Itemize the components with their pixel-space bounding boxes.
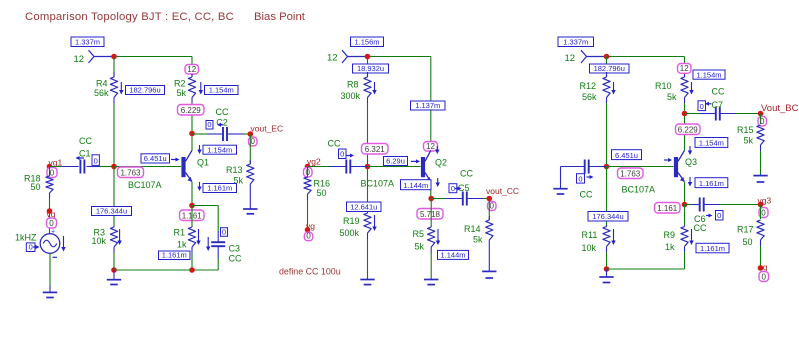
- wire Q2 emitter to node: [430, 182, 432, 199]
- wire VCC horizontal left: [114, 56, 192, 58]
- transistor Q1: [181, 150, 209, 181]
- svg-text:1.161: 1.161: [657, 204, 678, 213]
- wire emitter node to C3 branch: [192, 205, 218, 207]
- current arrow R3: [119, 229, 121, 241]
- node vg2: [304, 156, 321, 177]
- svg-text:1.144m: 1.144m: [403, 181, 428, 190]
- wire C5 to vout_CC: [483, 198, 489, 200]
- current arrow R1: [198, 229, 200, 241]
- svg-text:12: 12: [426, 142, 435, 151]
- current label 6.451u right: [612, 150, 642, 160]
- svg-text:CC: CC: [580, 190, 593, 200]
- svg-text:5k: 5k: [415, 242, 425, 252]
- svg-text:CC: CC: [216, 107, 229, 117]
- svg-text:182.796u: 182.796u: [129, 86, 160, 95]
- svg-text:vg2: vg2: [307, 156, 321, 166]
- svg-text:1.337m: 1.337m: [563, 38, 588, 47]
- capacitor C3: [211, 231, 242, 264]
- resistor R8: [341, 72, 372, 103]
- node R1 bottom: [189, 267, 195, 273]
- svg-text:Comparison Topology BJT : EC,: Comparison Topology BJT : EC, CC, BC: [25, 11, 234, 23]
- node vout_CC: [486, 186, 519, 211]
- svg-text:0: 0: [717, 211, 721, 220]
- wire base node to C1 junction: [100, 166, 114, 168]
- voltage label 1.161 right: [655, 203, 681, 214]
- current arrow R12: [613, 82, 615, 90]
- svg-text:1.763: 1.763: [120, 168, 141, 177]
- voltage label 1.763 right: [618, 168, 644, 179]
- svg-text:1.161m: 1.161m: [162, 251, 187, 260]
- svg-text:0: 0: [761, 208, 766, 217]
- wire base junction down to R19: [367, 167, 369, 213]
- wire VCC to R12: [606, 57, 608, 78]
- svg-text:R17: R17: [737, 225, 754, 235]
- wire emitter node down to R9: [684, 205, 686, 226]
- resistor R13: [226, 160, 254, 190]
- svg-text:0: 0: [251, 137, 256, 146]
- wire emitter node to C5: [431, 198, 446, 200]
- current label 0 C1: [76, 155, 100, 166]
- wire VCC down to R10: [684, 57, 686, 78]
- current label 0 C3: [206, 228, 228, 252]
- current arrow R9: [691, 229, 693, 241]
- current label 1.137m: [411, 101, 446, 110]
- resistor R4: [94, 72, 118, 103]
- current label 0 source: [26, 243, 39, 252]
- current arrow R8: [374, 82, 376, 90]
- svg-text:1.154m: 1.154m: [207, 145, 232, 154]
- svg-text:5k: 5k: [667, 92, 677, 102]
- node VCC junction right: [604, 54, 610, 60]
- wire R10 to C7 node: [684, 103, 686, 151]
- svg-text:5k: 5k: [177, 88, 187, 98]
- svg-text:1.144m: 1.144m: [440, 251, 465, 260]
- svg-text:R15: R15: [737, 125, 754, 135]
- svg-text:define CC 100u: define CC 100u: [279, 267, 341, 277]
- ground bypass cap: [560, 167, 562, 189]
- svg-text:BC107A: BC107A: [361, 179, 395, 189]
- current label 1.144m R5: [438, 250, 469, 259]
- wire C2 to vout_EC: [243, 133, 250, 135]
- svg-text:182.796u: 182.796u: [594, 64, 625, 73]
- current arrow R5: [437, 229, 439, 241]
- current label 0 C5: [449, 184, 462, 193]
- wire C7 to Vout_BC: [736, 113, 761, 115]
- svg-text:CC: CC: [694, 223, 707, 233]
- voltage label 12 Q2 collector: [424, 142, 438, 152]
- svg-text:CC: CC: [712, 87, 725, 97]
- wire top to R2: [191, 57, 193, 78]
- resistor R18: [24, 171, 53, 198]
- wire R18 to vg node: [49, 198, 51, 234]
- current arrow R4: [120, 82, 122, 90]
- current label 1.154m R2: [205, 86, 239, 95]
- svg-text:CC: CC: [328, 139, 341, 149]
- capacitor C5: [446, 169, 483, 206]
- svg-text:6.229: 6.229: [181, 106, 202, 115]
- current label 176.344u right: [588, 212, 628, 222]
- current label 1.156m: [351, 37, 384, 47]
- ground R14: [488, 246, 490, 271]
- svg-text:R8: R8: [347, 79, 359, 89]
- wire base junction to Q3 base: [607, 166, 674, 168]
- wire vg1 to C1: [50, 166, 63, 168]
- current label 1.161m R1: [159, 251, 191, 260]
- svg-text:1k: 1k: [665, 242, 675, 252]
- svg-text:R14: R14: [464, 224, 481, 234]
- current label 0 input cap middle: [339, 149, 355, 159]
- svg-text:Bias Point: Bias Point: [254, 11, 306, 23]
- svg-text:1.137m: 1.137m: [415, 101, 440, 110]
- voltage label 6.229 right: [676, 124, 701, 135]
- current arrow and label 1.161m emitter Q3: [688, 177, 728, 188]
- wire C6 to vg3: [720, 204, 761, 206]
- svg-text:C1: C1: [79, 149, 91, 159]
- svg-text:12: 12: [74, 54, 85, 65]
- resistor R2: [174, 74, 196, 103]
- node R3 bottom: [111, 267, 117, 273]
- svg-text:0: 0: [700, 102, 704, 111]
- node base junction Q2: [365, 164, 371, 170]
- svg-text:1k: 1k: [177, 240, 187, 250]
- svg-text:12: 12: [680, 64, 689, 73]
- svg-text:1.156m: 1.156m: [354, 38, 379, 47]
- svg-text:vg: vg: [306, 221, 315, 231]
- svg-text:+: +: [51, 228, 55, 235]
- node C7 tap: [682, 111, 688, 117]
- svg-text:0: 0: [207, 120, 211, 129]
- node emitter Q1: [189, 203, 195, 209]
- svg-text:C7: C7: [712, 100, 724, 110]
- svg-text:0: 0: [490, 201, 495, 210]
- ground source: [49, 286, 51, 292]
- node vg right: [758, 262, 769, 282]
- svg-text:18.932u: 18.932u: [357, 64, 384, 73]
- current arrow base Q3: [664, 159, 668, 161]
- svg-text:5k: 5k: [473, 235, 483, 245]
- current label 182.796u left: [126, 86, 165, 95]
- svg-text:Q1: Q1: [197, 158, 209, 168]
- node vout_EC: [248, 124, 284, 147]
- voltage label 1.161 left: [180, 210, 205, 221]
- resistor R5: [413, 226, 435, 253]
- current arrow R19: [374, 215, 376, 227]
- svg-text:Q2: Q2: [435, 158, 447, 168]
- svg-text:6.451u: 6.451u: [615, 151, 638, 160]
- wire VCC down to Q2 collector: [430, 57, 432, 151]
- node vg1: [47, 158, 63, 178]
- capacitor C1: [62, 136, 100, 174]
- ground R13: [249, 190, 251, 209]
- current arrow R11: [613, 229, 615, 241]
- transistor Q2: [421, 150, 447, 181]
- svg-text:1.154m: 1.154m: [699, 139, 724, 148]
- wire vout_EC to R13: [249, 134, 251, 164]
- svg-text:50: 50: [317, 188, 327, 198]
- resistor R11: [582, 225, 611, 253]
- svg-text:CC: CC: [229, 254, 242, 264]
- svg-text:0: 0: [762, 272, 767, 281]
- wire Vout_BC to R15: [760, 114, 762, 125]
- wire vout_CC to R14: [488, 199, 490, 221]
- wire base junction left to bypass cap: [595, 166, 607, 168]
- resistor R1: [174, 226, 196, 253]
- current label 6.451u base Q1: [141, 154, 180, 163]
- svg-text:BC107A: BC107A: [622, 185, 656, 195]
- wire R15 to ground: [760, 151, 762, 174]
- svg-text:6.451u: 6.451u: [144, 154, 167, 163]
- current label 0 C7: [698, 101, 712, 111]
- svg-text:5.718: 5.718: [420, 210, 441, 219]
- svg-text:vg: vg: [759, 262, 768, 272]
- svg-text:vg3: vg3: [758, 196, 772, 206]
- wire R17 to vg node: [760, 246, 762, 268]
- svg-text:0: 0: [29, 243, 33, 252]
- svg-text:R12: R12: [580, 81, 597, 91]
- svg-text:Vout_BC: Vout_BC: [761, 103, 799, 114]
- svg-text:C3: C3: [229, 244, 241, 254]
- current label 0 C2: [206, 120, 223, 129]
- svg-text:1.161m: 1.161m: [700, 244, 725, 253]
- wire R9 to bottom rail: [684, 252, 686, 269]
- wire VCC horizontal right: [607, 56, 685, 58]
- current arrow and label 1.154m collector Q3: [688, 138, 728, 156]
- ground bottom rail left: [113, 270, 115, 280]
- ground R11: [606, 269, 608, 277]
- current label 182.796u right: [590, 64, 630, 73]
- capacitor C2: [207, 107, 243, 141]
- wire C7 node to C7: [685, 113, 701, 115]
- node Vout_BC: [758, 103, 799, 126]
- svg-text:1.337m: 1.337m: [75, 38, 100, 47]
- current label 12.641u: [347, 202, 382, 212]
- svg-text:R11: R11: [582, 230, 598, 240]
- svg-text:1.161m: 1.161m: [207, 184, 232, 193]
- voltage label 5.718: [417, 209, 443, 220]
- wire R19 to ground: [367, 239, 369, 278]
- node emitter Q3: [682, 202, 688, 208]
- current arrow and label 1.154m collector Q1: [197, 145, 236, 154]
- node base divider junction: [111, 164, 117, 170]
- current label 176.344u R3: [92, 207, 132, 216]
- svg-text:10k: 10k: [582, 243, 597, 253]
- resistor R3: [92, 226, 118, 253]
- voltage label 1.763 left: [118, 167, 144, 178]
- current arrow and label 1.144m emitter Q2: [401, 178, 440, 190]
- wire bottom rail right: [607, 268, 685, 270]
- wire R2 to collector node: [191, 103, 193, 151]
- wire VCC horizontal middle: [368, 56, 431, 58]
- wire source to ground: [49, 253, 51, 286]
- svg-text:C2: C2: [216, 118, 228, 128]
- svg-text:56k: 56k: [94, 88, 109, 98]
- svg-text:Q3: Q3: [685, 157, 697, 167]
- wire R1 to bottom rail: [191, 253, 193, 270]
- wire emitter to emitter node: [191, 182, 193, 206]
- svg-text:1.763: 1.763: [620, 169, 641, 178]
- svg-text:50: 50: [743, 237, 753, 247]
- node emitter Q2: [428, 196, 434, 202]
- svg-text:12: 12: [187, 65, 196, 74]
- ground R5: [430, 278, 432, 280]
- svg-text:vout_CC: vout_CC: [486, 186, 519, 196]
- svg-text:176.344u: 176.344u: [592, 212, 623, 221]
- resistor R17: [737, 220, 764, 247]
- svg-text:0: 0: [94, 157, 98, 166]
- current label 0 bypass cap: [577, 174, 594, 184]
- current arrow R2: [200, 82, 202, 90]
- wire base junction down to R11: [606, 167, 608, 227]
- node vg3: [758, 196, 772, 218]
- wire R8 to base node: [367, 103, 369, 167]
- svg-text:R5: R5: [413, 229, 425, 239]
- capacitor C6: [692, 198, 720, 234]
- off-page connector 12V left: [74, 50, 115, 65]
- svg-text:0: 0: [340, 150, 344, 159]
- svg-text:CC: CC: [79, 136, 92, 146]
- svg-text:R9: R9: [664, 230, 676, 240]
- node ground junction right: [604, 266, 610, 272]
- wire C3 to bottom rail: [217, 258, 219, 270]
- wire emitter node to C6: [685, 204, 693, 206]
- off-page connector 12V middle: [327, 50, 368, 63]
- svg-text:R4: R4: [96, 79, 108, 89]
- node VCC junction left: [111, 54, 117, 60]
- svg-text:vout_EC: vout_EC: [251, 124, 284, 134]
- wire vg1 down to R18: [49, 167, 51, 177]
- svg-text:0: 0: [451, 184, 455, 193]
- transistor Q3: [674, 150, 697, 181]
- wire R11 to ground node: [606, 252, 608, 269]
- capacitor CC input middle: [328, 139, 368, 174]
- current arrow 1.137m collector Q2: [436, 146, 438, 150]
- capacitor C7: [700, 87, 736, 121]
- svg-text:1kHZ: 1kHZ: [15, 233, 37, 243]
- current label 1.154m R10: [693, 70, 725, 79]
- svg-text:12: 12: [565, 53, 576, 64]
- current label 1.337m right: [558, 37, 594, 47]
- wire base junction down to R3: [113, 167, 115, 227]
- svg-text:1.161m: 1.161m: [699, 179, 724, 188]
- wire C3 branch down: [217, 206, 219, 232]
- voltage label 12 R10 top: [678, 64, 692, 74]
- wire R5 to ground: [430, 253, 432, 278]
- svg-text:10k: 10k: [92, 236, 107, 246]
- svg-text:5k: 5k: [744, 136, 754, 146]
- resistor R10: [655, 74, 688, 103]
- wire base junction to Q1 base: [114, 166, 181, 168]
- svg-text:R2: R2: [174, 79, 186, 89]
- node VCC junction middle: [365, 54, 371, 60]
- svg-text:1.154m: 1.154m: [696, 70, 721, 79]
- node vg left: [47, 208, 57, 228]
- wire R12 to base node: [606, 103, 608, 167]
- current arrow R10: [691, 82, 693, 90]
- svg-text:0: 0: [578, 174, 582, 183]
- wire R16 to vg node: [307, 200, 309, 230]
- svg-text:BC107A: BC107A: [128, 180, 162, 190]
- current arrow source: [63, 236, 65, 247]
- wire collector node to C2: [192, 133, 207, 135]
- svg-text:12: 12: [327, 53, 338, 64]
- svg-text:6.321: 6.321: [365, 145, 386, 154]
- svg-text:R13: R13: [226, 165, 243, 175]
- svg-text:R10: R10: [655, 81, 672, 91]
- svg-text:R16: R16: [314, 179, 331, 189]
- node collector junction C2 tap: [189, 131, 195, 137]
- resistor R16: [304, 177, 330, 200]
- svg-text:6.29u: 6.29u: [386, 157, 405, 166]
- svg-text:0: 0: [222, 228, 226, 237]
- svg-text:56k: 56k: [582, 92, 597, 102]
- resistor R19: [340, 212, 372, 239]
- wire bottom rail left: [114, 269, 192, 271]
- wire vg3 to R17: [760, 205, 762, 220]
- svg-text:176.344u: 176.344u: [96, 207, 127, 216]
- voltage label 6.229 left: [178, 105, 205, 116]
- current arrow and label 1.161m emitter Q1: [197, 182, 236, 193]
- wire R3 to ground node: [113, 253, 115, 270]
- svg-text:6.229: 6.229: [678, 125, 699, 134]
- svg-text:CC: CC: [460, 169, 473, 179]
- current label 1.337m left: [71, 37, 104, 47]
- resistor R12: [580, 72, 611, 103]
- svg-text:0: 0: [306, 232, 311, 241]
- resistor R9: [664, 225, 689, 252]
- ground R15: [760, 174, 762, 176]
- svg-text:0: 0: [50, 168, 55, 177]
- node base junction Q3: [604, 164, 610, 170]
- voltage label 12 at R2 top: [185, 65, 199, 75]
- wire vg2 to input cap: [308, 166, 330, 168]
- off-page connector 12V right: [565, 50, 607, 64]
- ground R19: [367, 278, 369, 280]
- wire emitter node down to R5: [430, 199, 432, 227]
- svg-text:500k: 500k: [340, 228, 360, 238]
- svg-text:50: 50: [31, 182, 41, 192]
- wire R4 to base node: [113, 103, 115, 167]
- svg-text:0: 0: [49, 219, 54, 228]
- svg-text:12.641u: 12.641u: [350, 203, 377, 212]
- resistor R14: [464, 216, 493, 246]
- voltage label 6.321: [362, 144, 389, 155]
- wire vg2 down to R16: [307, 167, 309, 178]
- wire Q3 emitter to node: [684, 182, 686, 205]
- svg-text:300k: 300k: [341, 91, 361, 101]
- current label 18.932u: [353, 64, 389, 73]
- wire VCC to R8: [367, 57, 369, 78]
- resistor R15: [737, 125, 764, 151]
- wire emitter node to R1: [191, 206, 193, 227]
- current label 6.29u base Q2: [384, 157, 421, 166]
- svg-text:R1: R1: [174, 228, 186, 238]
- wire VCC to R4: [113, 57, 115, 78]
- capacitor CC bypass right: [561, 160, 607, 200]
- svg-text:R19: R19: [343, 216, 360, 226]
- current label 1.161m R9: [696, 243, 729, 253]
- node vg middle: [304, 221, 315, 241]
- voltage source V1 1kHZ: [15, 228, 60, 257]
- current label 0 C6: [706, 211, 723, 221]
- wire base junction to Q2 base: [368, 166, 421, 168]
- svg-text:1.154m: 1.154m: [209, 86, 234, 95]
